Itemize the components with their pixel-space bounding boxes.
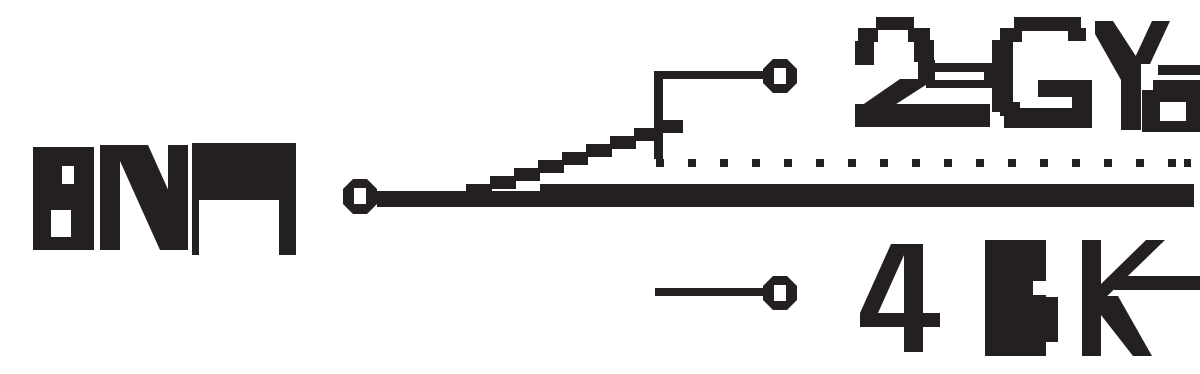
wire stub right of K bbox=[1114, 276, 1200, 290]
terminal ring T3 bbox=[763, 276, 797, 310]
wire W5 top horizontal to terminal bbox=[654, 71, 764, 79]
wire color code letter G bbox=[992, 17, 1092, 128]
wire W7 lower horizontal to terminal bbox=[655, 288, 763, 296]
terminal ring T2 bbox=[763, 59, 797, 93]
wire stub right of Y lower bbox=[1153, 80, 1200, 91]
connector C1 left leg bbox=[192, 200, 199, 255]
connector C1 body bbox=[192, 143, 296, 200]
wire color code letter Y bbox=[1095, 21, 1170, 130]
wire stub right of Y upper bbox=[1158, 65, 1200, 75]
pin label 4 bbox=[860, 244, 940, 352]
wire W2 upper parallel run bbox=[540, 184, 1194, 192]
wire W3 diagonal branch bbox=[466, 120, 683, 197]
wire color code letter K bbox=[1082, 240, 1165, 356]
wire label BN letter B bbox=[33, 147, 94, 250]
terminal ring T1 bbox=[343, 179, 377, 214]
pin label 2 bbox=[855, 17, 990, 127]
wire W1 main horizontal bbox=[377, 191, 1194, 207]
wire label BN letter N bbox=[100, 145, 188, 250]
connector stub between 2 and GY bbox=[926, 63, 994, 88]
wire W4 vertical riser bbox=[654, 71, 663, 159]
cropped terminal ring at right edge bbox=[1142, 90, 1200, 132]
connector C1 right leg bbox=[279, 200, 296, 255]
wire color code letter B bbox=[985, 240, 1058, 356]
wire W6 dotted run bbox=[656, 159, 1191, 167]
